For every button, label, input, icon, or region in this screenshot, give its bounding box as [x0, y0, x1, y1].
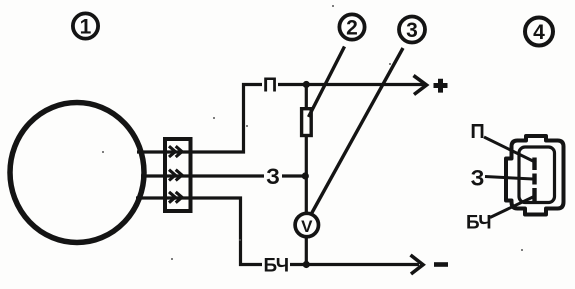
- junction З: [302, 172, 309, 179]
- svg-text:З: З: [266, 164, 280, 189]
- svg-text:П: П: [470, 121, 484, 143]
- svg-text:1: 1: [80, 16, 92, 39]
- sensor body (speed sensor, item 1): [10, 103, 144, 243]
- chevron contact 3: [169, 192, 182, 203]
- resistor (item 2): [302, 109, 312, 136]
- svg-text:П: П: [263, 75, 277, 97]
- svg-text:БЧ: БЧ: [263, 256, 288, 277]
- wire З: label to junction: [282, 174, 306, 177]
- harness connector housing (item 4): [506, 136, 564, 215]
- svg-text:4: 4: [533, 21, 545, 44]
- callout 3: [399, 17, 425, 43]
- leader line, callout 3 to voltmeter: [312, 48, 403, 213]
- sensor connector block: [165, 139, 191, 211]
- svg-text:2: 2: [346, 17, 358, 40]
- harness connector inner shell: [519, 147, 555, 203]
- junction П / resistor: [303, 81, 310, 88]
- plus terminal: [434, 79, 448, 93]
- chevron contact 1: [169, 146, 182, 157]
- pin БЧ: [532, 188, 536, 201]
- pin П: [532, 158, 536, 171]
- wire П: sensor through block, riser and up: [137, 85, 262, 153]
- svg-text:БЧ: БЧ: [466, 213, 491, 234]
- wire БЧ: label to arrow: [290, 263, 419, 266]
- svg-text:3: 3: [406, 19, 418, 42]
- pin З: [532, 174, 536, 185]
- arrow head -: [411, 255, 424, 274]
- voltmeter (item 3): [295, 213, 318, 236]
- minus terminal: [434, 262, 448, 267]
- leader line, callout 2 to resistor: [309, 47, 345, 118]
- resistor lead bottom: [305, 136, 308, 178]
- wire: sensor through block, pin 2: [141, 174, 264, 177]
- callout 4: [525, 18, 553, 46]
- callout 1: [73, 13, 98, 38]
- wire П: label to arrow: [278, 83, 424, 86]
- junction БЧ / voltmeter: [303, 261, 310, 268]
- svg-text:З: З: [471, 166, 485, 191]
- arrow head +: [414, 76, 427, 95]
- leader БЧ to pin: [490, 196, 535, 218]
- wire: junction to voltmeter: [305, 176, 308, 214]
- chevron contact 2: [169, 170, 182, 181]
- wire: sensor through block, pin 3: [136, 198, 262, 265]
- leader П to pin: [484, 137, 536, 163]
- resistor lead top: [305, 85, 308, 110]
- svg-text:V: V: [301, 217, 313, 236]
- wire: voltmeter to БЧ wire: [305, 236, 308, 266]
- leader З to pin: [485, 177, 533, 180]
- callout 2: [339, 14, 364, 39]
